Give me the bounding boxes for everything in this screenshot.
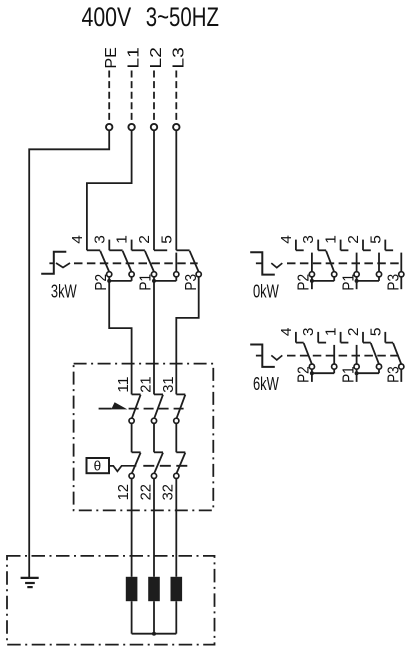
linkage chevron: [271, 263, 282, 268]
switch blade contact 4 closed: [100, 251, 109, 272]
supply dashed lead L2: [153, 71, 155, 124]
thermostat sensor box: [87, 458, 110, 473]
protective earth symbol: [21, 577, 39, 579]
switch blade contact 2 open: [378, 253, 380, 272]
thermal contact 11 blade: [132, 395, 141, 419]
switch terminal 5 stub: [384, 240, 386, 251]
switch fixed contact seat 2: [154, 249, 167, 251]
thermal contact 21 terminal circle: [151, 418, 156, 423]
switch moving-contact terminal circle 5: [399, 364, 404, 369]
svg-text:12: 12: [115, 484, 132, 500]
svg-text:P2: P2: [296, 366, 313, 383]
svg-text:P2: P2: [93, 274, 110, 291]
switch operating handle: [41, 252, 66, 274]
thermal contact 31 blade: [177, 395, 186, 419]
switch blade contact 1 open: [356, 253, 358, 272]
wire L3 to switch terminal 5: [175, 130, 177, 250]
wire P1 output to contact 21: [153, 281, 155, 395]
svg-text:1: 1: [323, 235, 340, 244]
link wire circles 1-2 (P1): [356, 369, 358, 373]
switch blade contact 3 closed: [326, 251, 334, 272]
switch moving-contact terminal circle 1: [354, 272, 359, 277]
linkage dash at handle: [256, 355, 262, 357]
svg-text:L3: L3: [170, 47, 187, 69]
svg-text:2: 2: [345, 235, 362, 244]
heating element E1: [126, 577, 138, 601]
thermal contact 12 blade: [132, 453, 141, 474]
switch blade contact 5 closed: [393, 343, 401, 364]
switch fixed contact seat 1: [132, 249, 145, 251]
supply dashed lead PE: [108, 71, 110, 124]
thermal contact 32 terminal circle: [174, 473, 179, 478]
thermal contact 31 seat: [176, 393, 185, 395]
switch terminal 2 stub: [362, 332, 364, 343]
switch fixed contact seat 3: [318, 249, 326, 251]
supply terminal circle L1: [128, 124, 134, 130]
lower trip linkage dashed line: [143, 465, 188, 467]
svg-text:6kW: 6kW: [253, 374, 279, 394]
junction dot P2: [310, 371, 314, 375]
svg-text:22: 22: [137, 484, 154, 500]
switch moving-contact terminal circle 1: [354, 364, 359, 369]
wire L2 to switch terminal 2: [153, 130, 155, 250]
svg-text:11: 11: [115, 376, 132, 392]
switch blade contact 1 open: [356, 345, 358, 364]
switch operating handle: [250, 252, 275, 274]
wire L1 jog to switch terminal 4: [87, 130, 132, 250]
thermostat linkage with V notch: [109, 466, 136, 472]
wire P2 output to contact 11: [109, 281, 131, 395]
switch moving-contact terminal circle 2: [376, 364, 381, 369]
switch terminal 1 stub: [131, 240, 133, 251]
svg-text:P3: P3: [386, 366, 403, 383]
switch moving-contact terminal circle 5: [399, 272, 404, 277]
thermal contact 32 seat: [176, 451, 185, 453]
svg-text:400V: 400V: [82, 2, 132, 32]
svg-text:4: 4: [278, 328, 295, 337]
wire 22 to heating element: [153, 479, 155, 577]
switch terminal 1 stub: [340, 332, 342, 343]
thermal contact 12 terminal circle: [129, 473, 134, 478]
switch blade contact 1 closed: [145, 251, 154, 272]
svg-text:P1: P1: [138, 274, 155, 291]
switch moving-contact terminal circle 4: [309, 272, 314, 277]
switch moving-contact terminal circle 1: [151, 272, 156, 277]
star-point bus wire: [132, 633, 177, 635]
svg-text:1: 1: [114, 235, 131, 244]
switch mechanical linkage dashed line: [287, 355, 400, 357]
wire element E2 to star point: [153, 601, 155, 634]
heater enclosure (dash-dot outline): [7, 556, 215, 645]
switch terminal 3 stub: [317, 332, 319, 343]
svg-text:P2: P2: [296, 274, 313, 291]
linkage dash at handle: [256, 262, 262, 264]
thermal contact 22 blade: [154, 453, 163, 474]
link wire circles 4-3 (P2): [108, 277, 110, 281]
switch terminal 5 stub: [384, 332, 386, 343]
thermal cutout enclosure (dash-dot outline): [74, 364, 214, 511]
supply terminal circle L2: [151, 124, 157, 130]
thermal contact 22 terminal circle: [151, 473, 156, 478]
switch operating handle: [250, 345, 275, 367]
thermal contact 21 seat: [154, 393, 163, 395]
switch terminal 4 stub: [295, 332, 297, 343]
output stub P1 (0kW): [356, 281, 358, 289]
link wire circles 1-2 (P1): [153, 277, 155, 281]
output stub P1 (6kW): [356, 373, 358, 382]
wire contact 21 to 22: [153, 423, 155, 452]
svg-text:3~50HZ: 3~50HZ: [146, 2, 219, 32]
svg-text:P3: P3: [386, 274, 403, 291]
svg-text:3: 3: [300, 235, 317, 244]
svg-text:4: 4: [69, 235, 86, 244]
link wire circles 4-3 (P2): [311, 277, 313, 281]
supply dashed lead L3: [175, 71, 177, 124]
switch fixed contact seat 3: [109, 249, 122, 251]
switch fixed contact seat 4: [296, 249, 304, 251]
output stub P3 (6kW): [400, 369, 402, 382]
switch moving-contact terminal circle 3: [332, 364, 337, 369]
switch moving-contact terminal circle 2: [376, 272, 381, 277]
wire element E3 to star point: [175, 601, 177, 634]
switch blade contact 4 closed: [304, 343, 312, 364]
switch moving-contact terminal circle 4: [107, 272, 112, 277]
output stub P3 (0kW): [400, 277, 402, 289]
switch blade contact 2 open: [175, 253, 177, 272]
switch fixed contact seat 5: [176, 249, 189, 251]
switch fixed contact seat 5: [385, 342, 393, 344]
junction dot P1: [355, 371, 359, 375]
switch blade contact 2 closed: [371, 343, 379, 364]
switch moving-contact terminal circle 3: [332, 272, 337, 277]
supply terminal circle PE: [106, 124, 112, 130]
svg-text:3: 3: [300, 328, 317, 337]
switch moving-contact terminal circle 5: [196, 272, 201, 277]
switch moving-contact terminal circle 4: [309, 364, 314, 369]
star-point junction dot: [152, 632, 156, 636]
wire 32 to heating element: [175, 479, 177, 577]
link wire circles 1-2 (P1): [356, 277, 358, 281]
switch terminal 2 stub: [362, 240, 364, 251]
thermal contact 31 terminal circle: [174, 418, 179, 423]
switch blade contact 5 closed: [190, 251, 199, 272]
switch mechanical linkage dashed line: [74, 262, 198, 264]
link wire circles 4-3 (P2): [311, 369, 313, 373]
svg-text:32: 32: [160, 484, 177, 500]
svg-text:1: 1: [323, 328, 340, 337]
supply dashed lead L1: [131, 71, 133, 124]
svg-text:2: 2: [345, 328, 362, 337]
svg-text:5: 5: [367, 235, 384, 244]
svg-text:P1: P1: [340, 366, 357, 383]
supply terminal circle L3: [173, 124, 179, 130]
switch fixed contact seat 2: [363, 249, 371, 251]
junction dot P2: [310, 279, 314, 283]
svg-text:L1: L1: [126, 47, 143, 69]
switch moving-contact terminal circle 2: [174, 272, 179, 277]
svg-text:31: 31: [160, 376, 177, 392]
switch blade contact 3 closed: [123, 251, 132, 272]
wire 12 to heating element: [131, 479, 133, 577]
svg-text:5: 5: [158, 235, 175, 244]
output stub P2 (6kW): [311, 373, 313, 382]
junction dot P1: [355, 279, 359, 283]
thermal contact 11 terminal circle: [129, 418, 134, 423]
switch fixed contact seat 4: [87, 249, 100, 251]
svg-text:21: 21: [138, 376, 155, 392]
switch fixed contact seat 4: [296, 342, 304, 344]
switch blade contact 3 open: [333, 345, 335, 364]
heating element E2: [148, 577, 160, 601]
switch terminal 3 stub: [108, 240, 110, 251]
junction dot P2: [107, 279, 111, 283]
switch mechanical linkage dashed line: [287, 262, 400, 264]
svg-text:L2: L2: [148, 47, 165, 69]
thermal contact 21 blade: [154, 395, 163, 419]
linkage chevron: [271, 355, 282, 360]
switch fixed contact seat 3: [318, 342, 326, 344]
svg-text:3kW: 3kW: [51, 282, 77, 302]
heating element E3: [171, 577, 183, 601]
manual-reset actuator arrow: [99, 408, 112, 410]
switch fixed contact seat 2: [363, 342, 371, 344]
switch terminal 4 stub: [295, 240, 297, 251]
wire P3 output to contact 31: [176, 277, 198, 395]
output stub P2 (0kW): [311, 281, 313, 289]
thermal contact 22 seat: [154, 451, 163, 453]
svg-text:P3: P3: [183, 274, 200, 291]
svg-text:θ: θ: [94, 459, 102, 474]
svg-text:2: 2: [136, 235, 153, 244]
upper trip linkage dashed line: [129, 408, 189, 410]
svg-text:PE: PE: [103, 47, 120, 69]
switch blade contact 4 open: [311, 253, 313, 272]
thermal contact 12 seat: [132, 451, 141, 453]
switch terminal 1 stub: [340, 240, 342, 251]
svg-text:4: 4: [278, 235, 295, 244]
switch blade contact 5 open: [400, 253, 402, 272]
switch moving-contact terminal circle 3: [129, 272, 134, 277]
switch fixed contact seat 5: [385, 249, 393, 251]
thermal contact 11 seat: [132, 393, 141, 395]
switch terminal 3 stub: [317, 240, 319, 251]
svg-text:5: 5: [367, 328, 384, 337]
switch fixed contact seat 1: [341, 342, 349, 344]
wire element E1 to star point: [131, 601, 133, 634]
switch fixed contact seat 1: [341, 249, 349, 251]
wire PE down-left to protective earth: [29, 130, 109, 577]
svg-text:0kW: 0kW: [253, 282, 279, 302]
wire contact 11 to 12: [131, 423, 133, 452]
wire contact 31 to 32: [175, 423, 177, 452]
svg-text:3: 3: [91, 235, 108, 244]
linkage dash at handle: [49, 262, 53, 264]
svg-text:P1: P1: [340, 274, 357, 291]
linkage chevron: [56, 263, 70, 268]
thermal contact 32 blade: [177, 453, 186, 474]
junction dot P1: [152, 279, 156, 283]
